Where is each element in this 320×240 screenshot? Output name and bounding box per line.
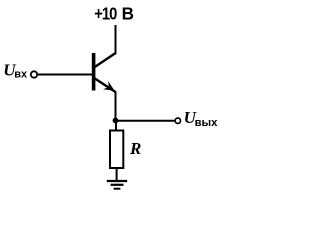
label Uвых [184,108,219,129]
wire output [116,120,176,122]
svg-text:В: В [122,3,134,24]
wire resistor to ground [116,169,118,181]
resistor R [110,131,123,169]
wire collector vertical [115,25,117,54]
ground [107,181,127,189]
terminal output [175,118,180,123]
svg-text:вых: вых [195,117,219,129]
transistor VT1 [92,53,116,92]
power label +10 В [94,3,134,24]
svg-text:R: R [129,139,141,158]
node junction emitter/output [113,118,119,124]
wire emitter vertical [115,92,117,121]
svg-text:вх: вх [14,69,28,81]
svg-text:+10: +10 [94,4,117,24]
wire junction to resistor [115,122,117,130]
label Uвх [3,60,28,80]
terminal input [31,71,37,77]
wire base [38,74,93,76]
